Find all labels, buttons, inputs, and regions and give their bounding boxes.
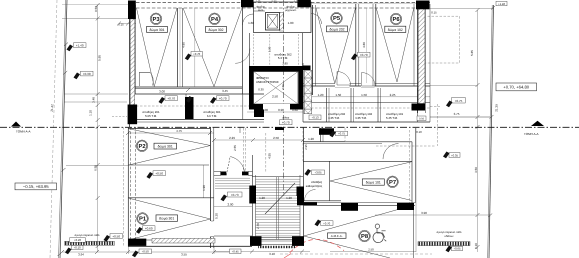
svg-text:5.45 Τ.Μ.: 5.45 Τ.Μ. — [386, 116, 398, 120]
svg-text:P6: P6 — [392, 16, 400, 23]
svg-text:21.42: 21.42 — [50, 104, 55, 112]
svg-text:+0.75: +0.75 — [338, 132, 346, 136]
svg-text:4.35 Τ.Μ.: 4.35 Τ.Μ. — [355, 116, 367, 120]
svg-text:3.94: 3.94 — [78, 252, 84, 256]
svg-text:δώμα 301: δώμα 301 — [159, 217, 174, 221]
svg-text:5.85: 5.85 — [470, 50, 474, 56]
svg-text:+0.20: +0.20 — [74, 238, 82, 242]
svg-text:Αντλ.: Αντλ. — [258, 9, 264, 12]
svg-text:P3: P3 — [152, 16, 160, 23]
svg-text:4.55: 4.55 — [268, 153, 272, 159]
svg-text:+0.35: +0.35 — [451, 153, 459, 157]
svg-text:1.00: 1.00 — [288, 21, 294, 25]
svg-text:6.10: 6.10 — [474, 243, 478, 249]
svg-text:4.80: 4.80 — [362, 42, 366, 48]
svg-text:0.15: 0.15 — [431, 11, 437, 15]
svg-text:5.95: 5.95 — [98, 55, 102, 61]
svg-text:+0.70: +0.70 — [167, 97, 175, 101]
svg-text:+1.40: +1.40 — [498, 2, 506, 6]
svg-text:0.60: 0.60 — [292, 108, 298, 112]
svg-text:1.50: 1.50 — [335, 93, 341, 97]
svg-text:3.48: 3.48 — [92, 97, 96, 103]
svg-text:1.60: 1.60 — [248, 21, 254, 25]
svg-text:3.55: 3.55 — [181, 252, 187, 256]
svg-text:μηχανοστ.: μηχανοστ. — [285, 9, 297, 12]
svg-text:+0.70: +0.70 — [219, 97, 227, 101]
svg-text:αγωγο περισυλ. λιθο: αγωγο περισυλ. λιθο — [437, 231, 462, 234]
svg-text:0.30: 0.30 — [272, 0, 277, 3]
svg-text:υδάτων: υδάτων — [445, 234, 455, 238]
svg-text:+0.10: +0.10 — [74, 246, 82, 250]
svg-text:1.45: 1.45 — [294, 0, 299, 3]
svg-text:21.30: 21.30 — [494, 104, 498, 112]
svg-text:δώμα 101: δώμα 101 — [366, 181, 381, 185]
svg-text:6.6 Τ.Μ.: 6.6 Τ.Μ. — [207, 114, 217, 118]
svg-text:+1.40: +1.40 — [76, 44, 84, 48]
svg-text:+0.70: +0.70 — [323, 221, 331, 225]
svg-text:δώμα 202: δώμα 202 — [329, 27, 344, 31]
svg-text:0.56: 0.56 — [419, 118, 425, 121]
svg-text:ΤΟΜΗ Α-Α: ΤΟΜΗ Α-Α — [16, 129, 30, 133]
svg-text:1.80: 1.80 — [268, 46, 272, 52]
svg-text:ΤΟΜΗ Α-Α: ΤΟΜΗ Α-Α — [524, 132, 538, 136]
svg-text:ΑΝΕΛΚΥΣΤΗΡΑΣ: ΑΝΕΛΚΥΣΤΗΡΑΣ — [256, 80, 279, 84]
svg-text:1.90: 1.90 — [202, 185, 206, 191]
svg-text:0.90: 0.90 — [278, 108, 284, 112]
svg-text:Α.Μ.Ε.Α.: Α.Μ.Ε.Α. — [331, 234, 343, 238]
svg-text:P4: P4 — [211, 17, 219, 23]
svg-text:P2: P2 — [138, 143, 145, 150]
svg-text:2.50: 2.50 — [272, 95, 278, 99]
svg-text:4.35 Τ.Μ.: 4.35 Τ.Μ. — [328, 116, 340, 120]
svg-text:+0.70: +0.70 — [193, 52, 201, 56]
svg-text:P8: P8 — [361, 233, 369, 240]
svg-text:2.70: 2.70 — [256, 223, 260, 229]
svg-text:1.80: 1.80 — [282, 62, 288, 66]
svg-text:δώμα 301: δώμα 301 — [158, 145, 173, 149]
svg-text:1.20: 1.20 — [308, 137, 314, 141]
svg-text:+0.73: +0.73 — [231, 193, 239, 197]
svg-text:0.50: 0.50 — [94, 6, 98, 12]
svg-text:+0.70, +64.80: +0.70, +64.80 — [503, 85, 530, 90]
svg-text:+0.30: +0.30 — [83, 72, 91, 76]
svg-text:αγωγο περισυλ. λιθο: αγωγο περισυλ. λιθο — [75, 234, 100, 237]
svg-text:2.00: 2.00 — [227, 203, 233, 207]
svg-text:+0.60: +0.60 — [145, 227, 153, 231]
svg-text:+0.13: +0.13 — [311, 116, 319, 120]
svg-text:0.30: 0.30 — [258, 88, 264, 92]
svg-text:0.10: 0.10 — [416, 130, 422, 134]
svg-text:1.00: 1.00 — [262, 108, 268, 112]
svg-text:2.50: 2.50 — [273, 136, 279, 140]
svg-text:3.45: 3.45 — [222, 89, 228, 93]
svg-text:δώμα 301: δώμα 301 — [149, 28, 164, 32]
svg-text:καθαριότητας: καθαριότητας — [306, 184, 323, 188]
svg-text:4.75: 4.75 — [176, 129, 182, 133]
svg-text:+0.70: +0.70 — [282, 121, 290, 125]
svg-text:+0.70: +0.70 — [360, 53, 368, 57]
svg-text:2.95: 2.95 — [304, 144, 308, 150]
svg-text:νόθεια: νόθεια — [282, 117, 290, 120]
svg-text:+0.45: +0.45 — [232, 250, 240, 254]
svg-text:5.3 Τ.Μ.: 5.3 Τ.Μ. — [278, 56, 288, 60]
svg-text:5.20: 5.20 — [214, 213, 218, 219]
svg-text:3.50: 3.50 — [474, 167, 478, 173]
svg-text:2.29: 2.29 — [229, 136, 235, 140]
svg-text:3.10: 3.10 — [269, 252, 275, 256]
svg-text:1.50: 1.50 — [361, 93, 367, 97]
svg-text:1.20: 1.20 — [318, 93, 324, 97]
svg-text:δώμα 302: δώμα 302 — [208, 28, 223, 32]
svg-text:1.10: 1.10 — [89, 110, 93, 116]
svg-text:+0.75: +0.75 — [455, 99, 463, 103]
svg-text:4.80: 4.80 — [182, 42, 186, 48]
svg-text:−0.15, +63.95: −0.15, +63.95 — [23, 184, 50, 189]
svg-text:+0.65: +0.65 — [453, 247, 461, 251]
svg-text:1.20: 1.20 — [259, 196, 265, 200]
svg-text:6.55: 6.55 — [94, 165, 98, 171]
svg-text:5.65 Τ.Μ.: 5.65 Τ.Μ. — [145, 114, 157, 118]
svg-text:2.25: 2.25 — [390, 93, 396, 97]
svg-text:3.00: 3.00 — [159, 89, 165, 93]
svg-text:P1: P1 — [139, 217, 147, 223]
svg-text:P7: P7 — [389, 180, 396, 186]
svg-text:2.80: 2.80 — [281, 84, 285, 90]
svg-text:1.20: 1.20 — [286, 196, 292, 200]
svg-text:3.75: 3.75 — [454, 112, 460, 116]
svg-text:P5: P5 — [333, 16, 341, 22]
svg-text:+0.50: +0.50 — [112, 234, 120, 238]
svg-text:+0.50: +0.50 — [155, 172, 163, 176]
svg-text:2.55: 2.55 — [233, 145, 237, 151]
svg-text:0.15: 0.15 — [118, 22, 124, 26]
svg-text:+3.05: +3.05 — [314, 171, 322, 175]
svg-text:δώμα 102: δώμα 102 — [388, 28, 403, 32]
svg-text:2.50: 2.50 — [368, 247, 374, 251]
svg-text:+0.50: +0.50 — [142, 250, 150, 254]
svg-text:1.45: 1.45 — [256, 0, 261, 3]
svg-text:3.90: 3.90 — [421, 211, 427, 215]
